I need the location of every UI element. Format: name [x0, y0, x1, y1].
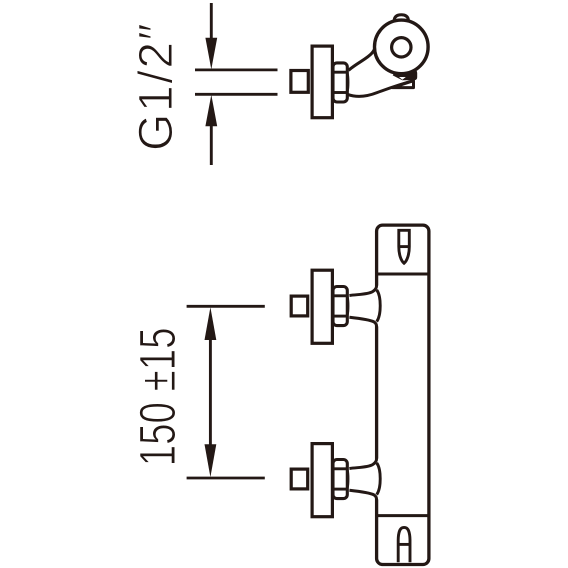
top inlet horn upper curve [349, 286, 376, 296]
dimension leader line lower [210, 124, 213, 165]
dimension extension line bottom inlet [187, 477, 265, 480]
body top divider line [377, 273, 429, 276]
top bump on valve body [394, 15, 408, 20]
arrowhead up [205, 307, 217, 340]
bottom marking (A) [398, 528, 410, 563]
top inlet horn fill [349, 286, 378, 327]
wall flange rectangle [312, 46, 332, 118]
svg-text:150 ±15: 150 ±15 [129, 327, 187, 466]
svg-text:G1/2″: G1/2″ [130, 22, 183, 151]
hose sweep curve [348, 81, 414, 97]
dimension extension line top (G1/2 upper) [195, 69, 278, 72]
stub square (threaded tail) [291, 71, 308, 93]
dimension extension line bottom (G1/2 lower) [195, 93, 278, 96]
bottom inlet horn lower curve [349, 490, 376, 499]
bottom inlet horn fill [349, 459, 378, 500]
top inlet horn lower curve [349, 317, 376, 326]
top marking (cartridge pin) [399, 230, 410, 263]
bottom inlet: erase body edge [375, 460, 379, 498]
bottom inlet horn upper curve [349, 459, 376, 469]
top inlet: erase body edge [375, 287, 379, 325]
mixer bar body [377, 225, 429, 564]
hose nut dark wedge [393, 70, 418, 81]
bottom inlet flange [312, 444, 332, 517]
arrowhead down [205, 38, 217, 70]
cartridge inner circle [392, 38, 411, 57]
top inlet union nut [333, 287, 348, 326]
valve body circle [375, 20, 429, 74]
dimension leader line upper [210, 3, 213, 41]
bottom inlet union nut [333, 460, 348, 499]
top inlet boss arc [377, 290, 381, 322]
union nut (side view) [333, 63, 348, 102]
top inlet flange [312, 270, 332, 343]
hose nipple outline triangle [393, 81, 414, 88]
body bottom divider line [377, 514, 429, 517]
white notch in hose nut [399, 77, 406, 80]
arrowhead up [205, 95, 217, 127]
dimension line between arrows [209, 338, 212, 447]
arrowhead down [205, 444, 217, 477]
bottom inlet boss arc [377, 463, 381, 495]
top inlet stub [291, 296, 308, 316]
bottom inlet stub [291, 469, 308, 489]
dimension extension line top inlet [187, 305, 265, 308]
upper flare curve nut to body [349, 47, 375, 70]
